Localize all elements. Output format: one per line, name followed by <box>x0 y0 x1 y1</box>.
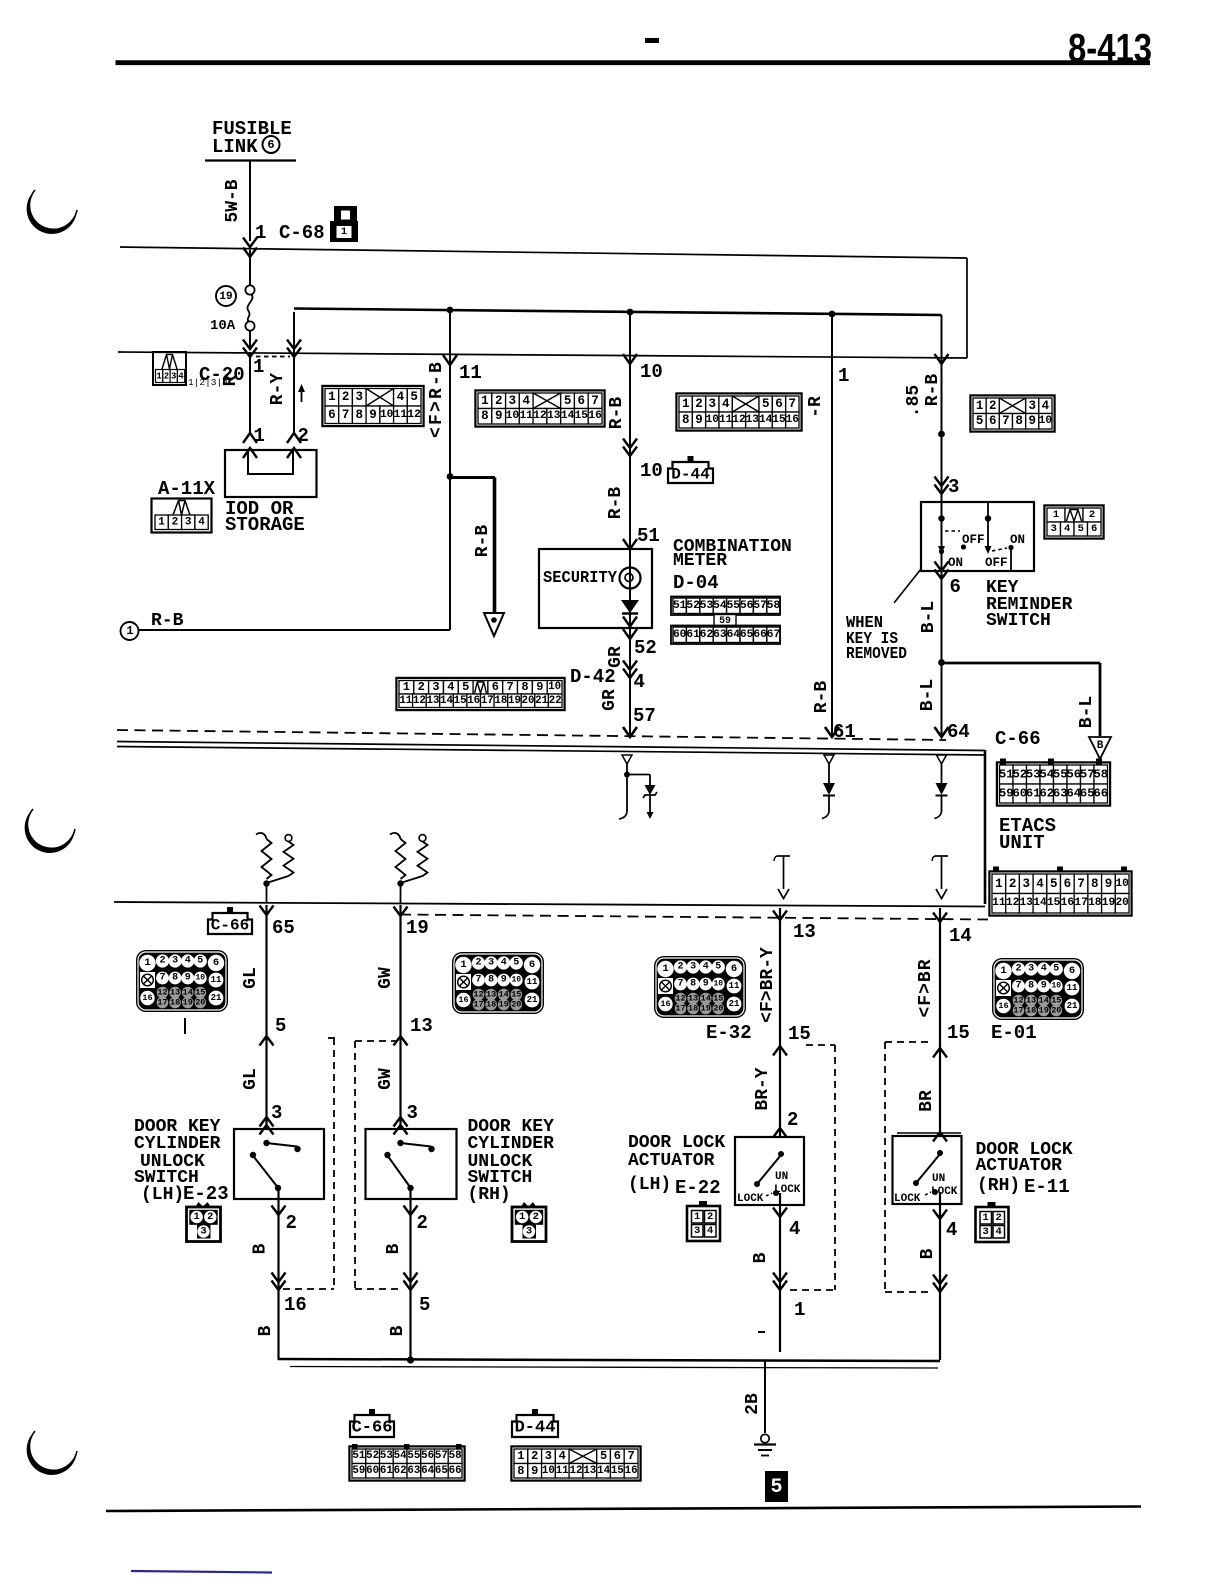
svg-text:11: 11 <box>719 414 733 426</box>
svg-text:2: 2 <box>207 1211 213 1223</box>
svg-text:6: 6 <box>1091 523 1097 535</box>
svg-text:1: 1 <box>662 963 668 975</box>
svg-text:21: 21 <box>211 993 222 1003</box>
svg-text:61: 61 <box>686 629 700 641</box>
svg-text:2: 2 <box>531 1449 538 1463</box>
svg-text:10: 10 <box>380 409 394 421</box>
svg-text:8: 8 <box>1015 414 1023 428</box>
svg-text:6: 6 <box>529 959 535 971</box>
svg-text:1: 1 <box>682 397 690 411</box>
svg-text:11: 11 <box>394 409 408 421</box>
svg-text:57: 57 <box>435 1450 448 1462</box>
svg-text:16: 16 <box>625 1465 638 1477</box>
svg-text:CYLINDER: CYLINDER <box>468 1134 555 1154</box>
svg-text:16: 16 <box>284 1294 307 1316</box>
svg-text:CYLINDER: CYLINDER <box>134 1134 221 1154</box>
svg-text:REMOVED: REMOVED <box>846 645 907 664</box>
svg-text:2: 2 <box>495 394 503 408</box>
svg-text:7: 7 <box>677 979 683 990</box>
svg-text:12: 12 <box>570 1465 583 1477</box>
svg-text:56: 56 <box>421 1450 434 1462</box>
svg-text:12: 12 <box>407 409 421 421</box>
svg-text:LOCK: LOCK <box>931 1186 958 1198</box>
svg-text:58: 58 <box>1093 768 1108 782</box>
svg-text:4: 4 <box>707 1225 713 1237</box>
svg-text:8: 8 <box>690 979 696 990</box>
svg-text:3: 3 <box>171 372 176 382</box>
svg-text:2: 2 <box>787 1109 798 1131</box>
svg-text:16: 16 <box>458 995 468 1005</box>
svg-text:9: 9 <box>501 975 507 986</box>
svg-text:13: 13 <box>688 994 698 1004</box>
svg-text:18: 18 <box>170 998 180 1008</box>
svg-text:16: 16 <box>786 414 800 426</box>
svg-text:15: 15 <box>611 1465 624 1477</box>
svg-text:5: 5 <box>976 414 984 428</box>
svg-text:UN: UN <box>932 1173 945 1185</box>
svg-text:10: 10 <box>542 1465 555 1477</box>
svg-text:5: 5 <box>715 962 721 973</box>
svg-text:8: 8 <box>488 975 494 986</box>
svg-text:10: 10 <box>1051 982 1061 991</box>
svg-text:16: 16 <box>660 999 670 1009</box>
svg-text:6: 6 <box>578 394 586 408</box>
svg-text:1: 1 <box>144 957 150 969</box>
svg-text:19: 19 <box>1039 1006 1049 1016</box>
svg-text:66: 66 <box>753 629 767 641</box>
svg-text:9: 9 <box>531 1464 538 1478</box>
svg-text:B: B <box>251 1243 271 1254</box>
svg-text:C-68: C-68 <box>279 222 325 244</box>
svg-text:1: 1 <box>995 877 1003 891</box>
svg-text:13: 13 <box>1019 897 1033 909</box>
svg-text:18: 18 <box>1088 897 1102 909</box>
svg-text:19: 19 <box>219 291 232 303</box>
svg-text:63: 63 <box>713 629 727 641</box>
svg-text:SWITCH: SWITCH <box>986 611 1051 631</box>
svg-text:19: 19 <box>701 1004 711 1014</box>
svg-text:1: 1 <box>341 227 347 238</box>
svg-text:A-11X: A-11X <box>158 478 216 500</box>
svg-text:54: 54 <box>713 600 727 612</box>
svg-text:65: 65 <box>272 917 295 939</box>
svg-text:STORAGE: STORAGE <box>225 514 305 536</box>
svg-text:<F>BR-Y: <F>BR-Y <box>758 947 778 1023</box>
svg-text:5: 5 <box>564 394 572 408</box>
svg-text:B-L: B-L <box>919 601 939 633</box>
svg-text:59: 59 <box>719 615 731 626</box>
svg-text:14: 14 <box>1039 996 1049 1006</box>
svg-text:51: 51 <box>999 768 1014 782</box>
svg-text:51: 51 <box>352 1450 365 1462</box>
svg-text:13: 13 <box>547 410 561 422</box>
svg-text:6: 6 <box>1064 877 1072 891</box>
svg-text:20: 20 <box>713 1004 723 1014</box>
svg-text:B: B <box>1097 740 1104 752</box>
svg-text:7: 7 <box>789 397 797 411</box>
svg-text:56: 56 <box>740 600 754 612</box>
svg-text:12: 12 <box>1006 897 1020 909</box>
svg-text:15: 15 <box>1051 996 1061 1006</box>
svg-text:16: 16 <box>588 410 602 422</box>
svg-text:15: 15 <box>511 990 521 1000</box>
svg-text:10: 10 <box>506 410 520 422</box>
svg-text:5: 5 <box>770 1476 782 1499</box>
svg-text:B: B <box>384 1243 404 1254</box>
svg-text:4: 4 <box>185 956 191 967</box>
svg-text:16: 16 <box>998 1001 1008 1011</box>
svg-text:9: 9 <box>1105 877 1113 891</box>
svg-text:8: 8 <box>517 1464 524 1478</box>
svg-text:54: 54 <box>394 1450 407 1462</box>
svg-text:7: 7 <box>1077 877 1085 891</box>
svg-text:4: 4 <box>501 958 507 969</box>
svg-text:17: 17 <box>675 1004 685 1014</box>
svg-text:14: 14 <box>701 994 711 1004</box>
svg-text:1: 1 <box>517 1449 524 1463</box>
svg-text:15: 15 <box>713 994 723 1004</box>
svg-text:63: 63 <box>407 1465 420 1477</box>
svg-text:20: 20 <box>522 695 535 707</box>
svg-text:3: 3 <box>407 1102 418 1124</box>
svg-text:ACTUATOR: ACTUATOR <box>628 1151 715 1171</box>
svg-text:E-32: E-32 <box>706 1022 752 1044</box>
svg-text:BR: BR <box>917 1090 937 1112</box>
svg-text:7: 7 <box>627 1449 634 1463</box>
svg-text:14: 14 <box>440 695 453 707</box>
svg-text:57: 57 <box>753 600 766 612</box>
svg-text:GR: GR <box>600 689 620 711</box>
svg-text:15: 15 <box>772 414 786 426</box>
svg-text:2: 2 <box>164 372 169 382</box>
svg-text:B-L: B-L <box>1077 696 1097 728</box>
svg-text:65: 65 <box>435 1465 448 1477</box>
svg-text:65: 65 <box>740 629 754 641</box>
svg-text:10: 10 <box>706 414 720 426</box>
svg-text:2: 2 <box>677 962 683 973</box>
svg-text:59: 59 <box>352 1465 365 1477</box>
svg-text:LOCK: LOCK <box>894 1193 921 1205</box>
svg-text:16: 16 <box>1061 897 1075 909</box>
svg-text:3: 3 <box>709 397 717 411</box>
svg-text:10: 10 <box>511 976 521 985</box>
svg-text:64: 64 <box>947 721 970 743</box>
svg-text:13: 13 <box>1026 996 1036 1006</box>
svg-text:4: 4 <box>634 671 645 693</box>
svg-text:<F>R-B: <F>R-B <box>427 360 447 438</box>
svg-text:20: 20 <box>195 998 205 1008</box>
svg-text:C-66: C-66 <box>352 1419 393 1438</box>
svg-text:12: 12 <box>732 414 746 426</box>
svg-text:60: 60 <box>673 629 687 641</box>
svg-text:60: 60 <box>366 1465 379 1477</box>
svg-text:R-B: R-B <box>607 397 627 430</box>
svg-text:61: 61 <box>380 1465 393 1477</box>
svg-text:7: 7 <box>159 973 165 984</box>
svg-text:3: 3 <box>1028 964 1034 975</box>
svg-text:5W-B: 5W-B <box>223 179 243 222</box>
svg-text:1: 1 <box>403 680 410 694</box>
svg-text:13: 13 <box>486 990 496 1000</box>
svg-text:64: 64 <box>421 1465 434 1477</box>
svg-text:5: 5 <box>513 958 519 969</box>
svg-text:1: 1 <box>254 425 265 447</box>
svg-text:C-66: C-66 <box>211 917 249 935</box>
svg-text:14: 14 <box>561 410 575 422</box>
svg-text:4: 4 <box>946 1219 957 1241</box>
svg-text:1: 1 <box>976 399 984 413</box>
svg-text:2: 2 <box>533 1211 539 1223</box>
svg-text:57: 57 <box>633 705 656 727</box>
svg-text:5: 5 <box>410 390 418 404</box>
svg-text:1: 1 <box>983 1212 989 1224</box>
svg-text:1: 1 <box>694 1211 700 1223</box>
svg-text:57: 57 <box>1080 768 1095 782</box>
svg-text:11: 11 <box>1067 983 1078 993</box>
svg-text:BR-Y: BR-Y <box>753 1067 773 1110</box>
svg-text:3: 3 <box>172 956 178 967</box>
svg-text:3: 3 <box>432 680 439 694</box>
svg-text:13: 13 <box>410 1015 433 1037</box>
svg-text:2: 2 <box>1089 509 1095 521</box>
svg-text:1: 1 <box>481 394 489 408</box>
svg-text:4: 4 <box>522 394 530 408</box>
svg-text:20: 20 <box>1051 1006 1061 1016</box>
svg-text:14: 14 <box>183 988 193 998</box>
svg-text:14: 14 <box>597 1465 610 1477</box>
svg-text:58: 58 <box>449 1450 462 1462</box>
svg-text:14: 14 <box>499 990 509 1000</box>
svg-text:62: 62 <box>700 629 714 641</box>
svg-text:63: 63 <box>1053 787 1068 801</box>
svg-text:19: 19 <box>499 1000 509 1010</box>
svg-text:13: 13 <box>583 1465 596 1477</box>
svg-text:GL: GL <box>241 967 261 989</box>
svg-text:16: 16 <box>467 695 480 707</box>
svg-text:1: 1 <box>156 372 162 382</box>
svg-text:1: 1 <box>794 1299 805 1321</box>
svg-text:4: 4 <box>1041 964 1047 975</box>
svg-text:6: 6 <box>492 680 499 694</box>
svg-text:18: 18 <box>1026 1006 1036 1016</box>
svg-text:16: 16 <box>142 993 152 1003</box>
svg-text:13: 13 <box>746 414 760 426</box>
svg-text:5: 5 <box>600 1449 607 1463</box>
svg-text:3: 3 <box>545 1449 552 1463</box>
svg-text:B: B <box>388 1325 408 1336</box>
svg-text:8: 8 <box>1091 877 1099 891</box>
svg-text:4: 4 <box>1036 877 1044 891</box>
svg-text:22: 22 <box>549 695 562 707</box>
svg-text:8: 8 <box>172 973 178 984</box>
svg-text:61: 61 <box>1026 787 1041 801</box>
svg-text:59: 59 <box>999 787 1014 801</box>
svg-text:5: 5 <box>762 397 770 411</box>
svg-text:(RH): (RH) <box>977 1176 1020 1196</box>
svg-text:65: 65 <box>1080 787 1095 801</box>
svg-text:11: 11 <box>519 410 533 422</box>
svg-text:19: 19 <box>183 998 193 1008</box>
svg-text:3: 3 <box>1028 399 1036 413</box>
svg-text:R-B: R-B <box>812 681 832 714</box>
svg-text:12: 12 <box>1013 996 1023 1006</box>
svg-text:12: 12 <box>157 988 167 998</box>
svg-text:(LH): (LH) <box>628 1175 671 1195</box>
svg-text:19: 19 <box>406 917 429 939</box>
svg-text:15: 15 <box>788 1023 811 1045</box>
svg-text:6: 6 <box>213 957 219 969</box>
svg-text:52: 52 <box>686 600 700 612</box>
svg-text:R-B: R-B <box>606 487 626 520</box>
svg-text:1: 1 <box>194 1211 200 1223</box>
svg-text:7: 7 <box>342 408 350 422</box>
svg-text:11: 11 <box>992 897 1006 909</box>
svg-text:2: 2 <box>707 1211 713 1223</box>
svg-text:C-66: C-66 <box>995 728 1041 750</box>
svg-text:15: 15 <box>454 695 467 707</box>
svg-text:R-B: R-B <box>923 374 943 407</box>
svg-text:9: 9 <box>695 413 703 427</box>
svg-text:5: 5 <box>1053 964 1059 975</box>
svg-text:6: 6 <box>775 397 783 411</box>
svg-text:GW: GW <box>376 967 396 989</box>
svg-text:D-04: D-04 <box>673 572 719 594</box>
svg-text:13: 13 <box>793 921 816 943</box>
svg-text:GR: GR <box>606 646 626 668</box>
svg-text:3: 3 <box>690 962 696 973</box>
svg-text:7: 7 <box>591 394 599 408</box>
svg-text:ON: ON <box>1010 533 1025 547</box>
svg-text:1: 1 <box>1053 509 1059 521</box>
svg-text:11: 11 <box>556 1465 569 1477</box>
svg-text:5: 5 <box>1078 523 1084 535</box>
svg-text:1: 1 <box>255 222 266 244</box>
svg-text:E-23: E-23 <box>183 1183 229 1205</box>
svg-text:2B: 2B <box>743 1393 763 1415</box>
svg-text:5: 5 <box>275 1015 286 1037</box>
svg-text:19: 19 <box>1102 897 1116 909</box>
svg-text:9: 9 <box>495 409 503 423</box>
svg-text:8: 8 <box>481 409 489 423</box>
svg-text:4: 4 <box>178 372 184 382</box>
svg-text:3: 3 <box>1051 523 1057 535</box>
svg-text:6: 6 <box>614 1449 621 1463</box>
svg-text:GL: GL <box>241 1068 261 1090</box>
svg-text:R: R <box>221 375 241 386</box>
svg-text:11: 11 <box>399 695 412 707</box>
svg-text:62: 62 <box>394 1465 407 1477</box>
svg-text:1: 1 <box>328 390 336 404</box>
svg-text:17: 17 <box>1074 897 1087 909</box>
svg-text:-R: -R <box>806 396 826 418</box>
svg-text:9: 9 <box>536 680 543 694</box>
svg-text:E-01: E-01 <box>991 1022 1037 1044</box>
svg-text:21: 21 <box>729 999 740 1009</box>
svg-text:2: 2 <box>172 517 179 529</box>
svg-text:3: 3 <box>356 390 364 404</box>
svg-text:4: 4 <box>559 1449 566 1463</box>
svg-text:.85: .85 <box>904 385 924 417</box>
svg-text:15: 15 <box>575 410 589 422</box>
svg-text:13: 13 <box>427 695 440 707</box>
svg-text:6: 6 <box>328 408 336 422</box>
svg-text:4: 4 <box>1042 399 1050 413</box>
svg-text:(LH): (LH) <box>141 1185 184 1205</box>
svg-text:2: 2 <box>298 425 309 447</box>
svg-text:5: 5 <box>1050 877 1058 891</box>
svg-text:LINK: LINK <box>212 136 258 158</box>
svg-text:(RH): (RH) <box>468 1185 511 1205</box>
svg-text:D-44: D-44 <box>515 1419 556 1438</box>
svg-text:10: 10 <box>640 361 663 383</box>
svg-text:R-Y: R-Y <box>268 373 288 406</box>
svg-text:8: 8 <box>682 413 690 427</box>
svg-text:6: 6 <box>950 576 961 598</box>
svg-text:17: 17 <box>1013 1006 1023 1016</box>
svg-text:4: 4 <box>447 680 454 694</box>
svg-text:2: 2 <box>695 397 703 411</box>
svg-text:3: 3 <box>948 476 959 498</box>
svg-text:10: 10 <box>548 681 561 693</box>
svg-text:B: B <box>751 1252 771 1263</box>
svg-text:21: 21 <box>535 695 548 707</box>
svg-text:3: 3 <box>271 1102 282 1124</box>
svg-text:51: 51 <box>673 600 687 612</box>
svg-text:53: 53 <box>1026 768 1041 782</box>
svg-text:DOOR LOCK: DOOR LOCK <box>628 1133 725 1153</box>
svg-text:13: 13 <box>170 988 180 998</box>
svg-text:6: 6 <box>989 414 997 428</box>
svg-text:11: 11 <box>459 362 482 384</box>
svg-text:2: 2 <box>417 1212 428 1234</box>
svg-text:1: 1 <box>460 959 466 971</box>
svg-text:15: 15 <box>195 988 205 998</box>
svg-text:9: 9 <box>1028 414 1036 428</box>
svg-text:11: 11 <box>527 977 538 987</box>
svg-text:4: 4 <box>397 390 405 404</box>
svg-text:10: 10 <box>195 974 205 983</box>
svg-text:55: 55 <box>727 600 741 612</box>
svg-text:9: 9 <box>703 979 709 990</box>
svg-text:10A: 10A <box>210 318 236 334</box>
svg-text:21: 21 <box>527 995 538 1005</box>
svg-text:2: 2 <box>286 1212 297 1234</box>
svg-text:19: 19 <box>508 695 521 707</box>
svg-text:2: 2 <box>418 680 425 694</box>
svg-text:9: 9 <box>369 408 377 422</box>
svg-text:17: 17 <box>481 695 494 707</box>
svg-text:OFF: OFF <box>962 533 985 547</box>
svg-text:2: 2 <box>989 399 997 413</box>
svg-text:14: 14 <box>1033 897 1047 909</box>
svg-text:14: 14 <box>759 414 773 426</box>
svg-text:2: 2 <box>996 1212 1002 1224</box>
svg-text:D-44: D-44 <box>671 466 710 484</box>
svg-text:14: 14 <box>949 925 972 947</box>
svg-text:58: 58 <box>767 600 781 612</box>
svg-text:METER: METER <box>673 551 727 571</box>
svg-text:LOCK: LOCK <box>774 1184 801 1196</box>
svg-text:7: 7 <box>475 975 481 986</box>
svg-text:1: 1 <box>158 517 165 529</box>
svg-text:52: 52 <box>634 637 657 659</box>
svg-text:3: 3 <box>983 1226 989 1238</box>
svg-text:12: 12 <box>413 695 426 707</box>
svg-text:1: 1 <box>253 356 264 378</box>
svg-text:8: 8 <box>521 680 528 694</box>
svg-text:10: 10 <box>640 460 663 482</box>
svg-text:55: 55 <box>407 1450 420 1462</box>
